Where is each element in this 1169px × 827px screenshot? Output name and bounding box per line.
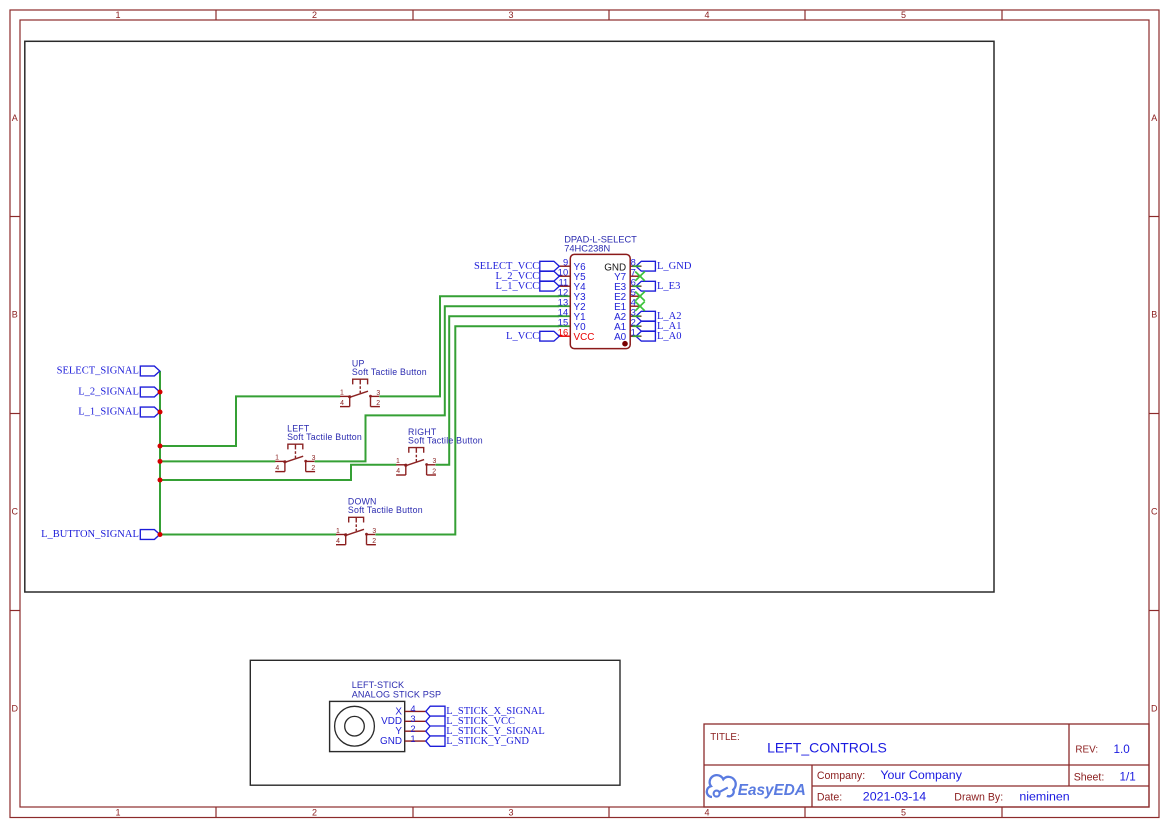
switch DOWN pin 4 (336, 538, 346, 545)
svg-text:B: B (1151, 310, 1157, 320)
svg-text:5: 5 (901, 808, 906, 818)
svg-text:2021-03-14: 2021-03-14 (863, 789, 926, 803)
junction bus/UP branch (158, 444, 163, 449)
svg-text:3: 3 (376, 390, 380, 397)
svg-text:REV:: REV: (1075, 744, 1098, 755)
analog stick enclosure rectangle (250, 660, 620, 785)
svg-text:GND: GND (380, 736, 402, 747)
wire stub at U1 pin 1 flag (633, 335, 641, 337)
svg-text:Drawn By:: Drawn By: (954, 791, 1003, 803)
no-connect flag U1 pin 7 (635, 272, 645, 281)
svg-text:1: 1 (340, 390, 344, 397)
junction at L_1_SIGNAL (158, 410, 163, 415)
LEFT-STICK pin 4 (X) (395, 703, 425, 717)
Company value Your Company (880, 768, 962, 782)
U1 pin 9 (Y6) (559, 257, 587, 274)
svg-text:nieminen: nieminen (1019, 789, 1069, 803)
svg-text:4: 4 (275, 465, 279, 472)
svg-text:Soft Tactile Button: Soft Tactile Button (352, 367, 427, 377)
wire stub at U1 pin 2 flag (633, 325, 641, 327)
svg-text:3: 3 (508, 808, 513, 818)
switch DOWN (Soft Tactile Button) labels (348, 497, 423, 515)
svg-text:L_VCC: L_VCC (506, 331, 539, 342)
switch RIGHT pin 4 (396, 468, 406, 475)
svg-text:1: 1 (396, 458, 400, 465)
Sheet label (1074, 772, 1105, 784)
switch DOWN pin 2 (367, 538, 377, 545)
net flag L_STICK_Y_SIGNAL (426, 726, 545, 737)
Company label (817, 770, 865, 782)
svg-text:C: C (12, 507, 19, 517)
U1 pin 1 (A0) (614, 327, 641, 344)
U1 pin 6 (E3) (614, 277, 641, 294)
U1 pin 8 (GND) (604, 257, 641, 274)
wire overlay into U1 pin 14 (558, 315, 570, 317)
net flag L_1_VCC (496, 281, 560, 292)
IC U1 value label 74HC238N (564, 243, 610, 253)
main schematic enclosure rectangle (25, 41, 994, 592)
switch LEFT symbol (283, 444, 307, 471)
wire switch LEFT pin 3 to U1 pin 13 (Y2) (315, 306, 559, 461)
svg-text:L_BUTTON_SIGNAL: L_BUTTON_SIGNAL (41, 529, 139, 540)
switch LEFT pin 1 (275, 455, 285, 462)
net flag L_A0 (636, 331, 682, 342)
switch RIGHT pin 1 (396, 458, 406, 465)
U1 pin 12 (Y3) (558, 287, 586, 304)
svg-text:L_2_SIGNAL: L_2_SIGNAL (78, 387, 139, 398)
net flag L_E3 (636, 281, 680, 292)
net flag L_STICK_VCC (426, 716, 515, 727)
junction at L_BUTTON_SIGNAL (158, 532, 163, 537)
svg-text:ANALOG STICK PSP: ANALOG STICK PSP (352, 689, 442, 699)
U1 pin 5 (E2) (614, 287, 641, 304)
net flag L_2_SIGNAL (78, 387, 160, 398)
switch UP pin 3 (371, 390, 381, 397)
LEFT-STICK pin 1 (GND) (380, 733, 426, 747)
svg-text:1: 1 (115, 808, 120, 818)
LEFT-STICK pin 3 (VDD) (381, 713, 426, 727)
switch DOWN pin 1 (336, 528, 346, 535)
svg-text:3: 3 (508, 10, 513, 20)
svg-text:D: D (1151, 704, 1158, 714)
no-connect flag U1 pin 5 (635, 292, 645, 301)
svg-text:LEFT_CONTROLS: LEFT_CONTROLS (767, 740, 887, 756)
REV label (1075, 744, 1098, 755)
net flag L_GND (636, 261, 692, 272)
U1 pin 11 (Y4) (558, 277, 586, 294)
U1 pin 4 (E1) (614, 297, 641, 314)
svg-text:4: 4 (336, 538, 340, 545)
svg-text:L_GND: L_GND (657, 261, 692, 272)
net flag L_BUTTON_SIGNAL (41, 529, 160, 540)
switch RIGHT symbol (404, 448, 428, 475)
svg-text:1.0: 1.0 (1114, 743, 1131, 756)
switch DOWN pin 3 (367, 528, 377, 535)
U1 pin 14 (Y1) (558, 307, 586, 324)
IC U1 74HC238N body (570, 254, 630, 348)
U1 pin 13 (Y2) (558, 297, 586, 314)
net flag L_1_SIGNAL (78, 407, 160, 418)
wire left signal bus (vertical) (159, 371, 161, 535)
svg-text:1: 1 (115, 10, 120, 20)
svg-text:Soft Tactile Button: Soft Tactile Button (348, 505, 423, 515)
svg-text:2: 2 (311, 465, 315, 472)
wire switch DOWN pin 3 to U1 pin 15 (Y0) (375, 326, 559, 534)
wire L_BUTTON_SIGNAL to switch DOWN pin 1 (160, 534, 336, 536)
svg-text:L_1_VCC: L_1_VCC (496, 281, 540, 292)
svg-text:L_1_SIGNAL: L_1_SIGNAL (78, 407, 139, 418)
svg-text:4: 4 (704, 808, 709, 818)
net flag L_2_VCC (496, 271, 560, 282)
wire stub at U1 pin 8 flag (633, 265, 641, 267)
svg-text:VCC: VCC (574, 332, 595, 343)
svg-text:1: 1 (275, 455, 279, 462)
svg-text:SELECT_SIGNAL: SELECT_SIGNAL (57, 366, 139, 377)
switch LEFT pin 4 (275, 465, 285, 472)
svg-text:Date:: Date: (817, 791, 842, 803)
switch RIGHT pin 2 (427, 468, 437, 475)
U1 pin 7 (Y7) (614, 267, 641, 284)
net flag L_VCC (506, 331, 559, 342)
svg-text:2: 2 (376, 400, 380, 407)
Drawn By label (954, 791, 1003, 803)
junction at L_2_SIGNAL (158, 390, 163, 395)
U1 pin 3 (A2) (614, 307, 641, 324)
U1 pin 15 (Y0) (558, 317, 586, 334)
EasyEDA logo (707, 775, 806, 799)
svg-text:B: B (12, 310, 18, 320)
Drawn By value nieminen (1019, 789, 1069, 803)
net flag SELECT_VCC (474, 261, 559, 272)
net flag L_STICK_X_SIGNAL (426, 706, 545, 717)
REV value 1.0 (1114, 743, 1131, 756)
svg-text:3: 3 (433, 458, 437, 465)
Date value 2021-03-14 (863, 789, 926, 803)
switch UP pin 1 (340, 390, 350, 397)
wire stub at U1 pin 6 flag (633, 285, 641, 287)
Sheet value 1/1 (1120, 771, 1136, 784)
svg-text:3: 3 (312, 455, 316, 462)
switch LEFT (Soft Tactile Button) labels (287, 424, 362, 443)
switch UP pin 4 (340, 400, 350, 407)
svg-text:74HC238N: 74HC238N (564, 243, 610, 253)
wire bus to switch UP pin 1 (160, 396, 340, 446)
svg-text:TITLE:: TITLE: (710, 732, 739, 743)
wire bus to switch LEFT pin 1 (160, 460, 275, 462)
wire switch RIGHT pin 3 to U1 pin 14 (Y1) (436, 316, 560, 465)
switch DOWN symbol (344, 517, 368, 544)
net flag SELECT_SIGNAL (57, 366, 160, 377)
svg-text:Your Company: Your Company (880, 768, 962, 782)
title block text TITLE (710, 732, 739, 743)
svg-text:1: 1 (410, 733, 415, 744)
wire switch UP pin 3 to U1 pin 12 (Y3) (379, 296, 559, 396)
svg-text:Company:: Company: (817, 770, 865, 782)
svg-text:L_STICK_Y_GND: L_STICK_Y_GND (446, 736, 529, 747)
connector LEFT-STICK labels (352, 680, 442, 699)
svg-text:2: 2 (372, 538, 376, 545)
junction bus/LEFT branch (158, 459, 163, 464)
wire overlay into U1 pin 15 (558, 325, 570, 327)
svg-text:D: D (12, 704, 19, 714)
net flag L_STICK_Y_GND (426, 736, 530, 747)
Date label (817, 791, 842, 803)
U1 pin 16 (VCC) (558, 327, 595, 344)
svg-text:2: 2 (312, 808, 317, 818)
wire stub at U1 pin 3 flag (633, 315, 641, 317)
svg-text:2: 2 (312, 10, 317, 20)
svg-text:Soft Tactile Button: Soft Tactile Button (287, 432, 362, 442)
no-connect flag U1 pin 4 (635, 302, 645, 311)
svg-text:2: 2 (432, 468, 436, 475)
svg-text:1/1: 1/1 (1120, 771, 1136, 784)
U1 pin 2 (A1) (614, 317, 641, 334)
svg-text:A: A (12, 113, 18, 123)
switch LEFT pin 2 (306, 465, 316, 472)
wire overlay into U1 pin 13 (558, 305, 570, 307)
svg-text:L_A0: L_A0 (657, 331, 682, 342)
svg-text:4: 4 (396, 468, 400, 475)
switch UP (Soft Tactile Button) labels (352, 359, 427, 378)
svg-text:Sheet:: Sheet: (1074, 772, 1105, 784)
svg-text:5: 5 (901, 10, 906, 20)
svg-text:3: 3 (372, 528, 376, 535)
net flag L_A1 (636, 321, 682, 332)
net flag L_A2 (636, 311, 682, 322)
title value LEFT_CONTROLS (767, 740, 887, 756)
svg-text:C: C (1151, 507, 1158, 517)
junction bus/RIGHT branch (158, 478, 163, 483)
svg-text:A: A (1151, 113, 1157, 123)
wire overlay into U1 pin 12 (558, 295, 570, 297)
svg-text:4: 4 (340, 400, 344, 407)
U1 pin 10 (Y5) (558, 267, 586, 284)
svg-text:Soft Tactile Button: Soft Tactile Button (408, 435, 483, 445)
switch UP pin 2 (371, 400, 381, 407)
switch UP symbol (348, 379, 372, 406)
svg-text:1: 1 (336, 528, 340, 535)
svg-text:EasyEDA: EasyEDA (738, 782, 806, 799)
svg-text:4: 4 (704, 10, 709, 20)
LEFT-STICK pin 2 (Y) (395, 723, 425, 737)
switch RIGHT (Soft Tactile Button) labels (408, 427, 483, 446)
switch LEFT pin 3 (306, 455, 316, 462)
IC U1 name label DPAD-L-SELECT (564, 235, 637, 245)
svg-text:L_E3: L_E3 (657, 281, 680, 292)
wire bus to switch RIGHT pin 1 (160, 465, 396, 480)
connector LEFT-STICK body (330, 701, 405, 751)
switch RIGHT pin 3 (427, 458, 437, 465)
U1 pin-1 marker dot (622, 341, 628, 347)
